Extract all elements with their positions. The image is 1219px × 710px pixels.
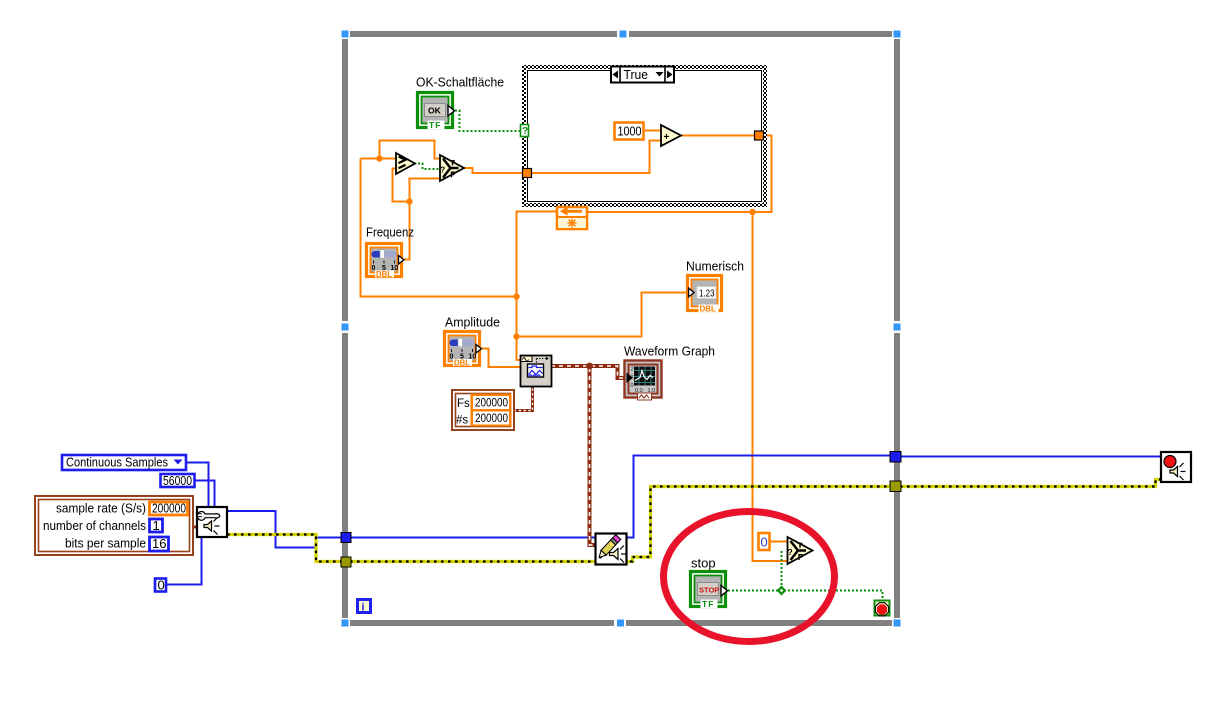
enum constant continuous samples: [62, 455, 186, 471]
svg-text:Waveform Graph: Waveform Graph: [624, 344, 715, 359]
constant 0 orange: [759, 533, 770, 550]
case selector label: [611, 67, 674, 83]
while loop selection handle top-middle: [617, 29, 629, 39]
wire configure task id to loop tunnel: [227, 511, 342, 548]
svg-text:OK: OK: [428, 106, 442, 116]
tunnel case left orange: [523, 169, 532, 178]
wire feedback output vertical: [517, 212, 557, 361]
svg-text:Continuous Samples: Continuous Samples: [66, 455, 168, 470]
svg-text:?: ?: [522, 126, 528, 137]
svg-text:0: 0: [372, 265, 376, 272]
wire 1000 to add upper input: [644, 130, 662, 132]
indicator Numerisch: [686, 259, 744, 314]
while loop selection handle bottom-left: [340, 618, 350, 628]
svg-text:1000: 1000: [618, 124, 642, 139]
svg-text:2: 2: [631, 367, 634, 373]
wire select1 output to case tunnel: [464, 168, 524, 173]
vi sine waveform: [521, 356, 552, 387]
tunnel loop-left blue task id: [341, 533, 351, 543]
wire frequenz output: [401, 179, 440, 260]
svg-text:Frequenz: Frequenz: [366, 225, 414, 240]
case structure border: [523, 66, 766, 206]
svg-text:sample rate (S/s): sample rate (S/s): [56, 501, 146, 516]
wire left vertical to greater-equal upper input: [361, 158, 397, 160]
svg-text:TF: TF: [702, 599, 714, 609]
wire error to sound stop: [900, 480, 1161, 487]
svg-text:0: 0: [761, 535, 768, 550]
wire add output to right tunnel: [680, 135, 755, 137]
while loop border: [345, 34, 897, 623]
tunnel loop-right blue task id: [890, 452, 901, 463]
wire boolean select2 s input: [781, 551, 783, 590]
function add: [661, 125, 681, 146]
svg-text:?: ?: [788, 547, 793, 557]
svg-text:Fs: Fs: [457, 398, 470, 410]
svg-text:200000: 200000: [475, 398, 508, 410]
svg-text:STOP: STOP: [699, 586, 719, 595]
svg-text:bits per sample: bits per sample: [65, 536, 146, 551]
wire 0 constant to select2 t input: [769, 541, 788, 543]
svg-text:OK-Schaltfläche: OK-Schaltfläche: [416, 75, 504, 90]
wire case tunnel to add lower input: [531, 141, 662, 174]
junction node waveform: [586, 363, 593, 370]
wire case output to feedback node: [587, 136, 772, 213]
svg-text:Numerisch: Numerisch: [686, 259, 744, 274]
tunnel loop-left yellow error: [341, 557, 351, 567]
svg-text:0: 0: [450, 354, 454, 361]
wire frequenz net down-left: [361, 159, 517, 297]
control stop: [691, 556, 728, 610]
wire error configure to loop tunnel: [227, 535, 342, 562]
wire task id to sound stop: [900, 456, 1161, 458]
loop condition terminal: [875, 601, 890, 616]
svg-text:DBL: DBL: [454, 359, 470, 368]
tunnel loop-right yellow error: [890, 481, 901, 492]
indicator waveform graph: [624, 344, 715, 401]
junction node frequenz-1: [376, 155, 382, 161]
svg-text:1: 1: [153, 518, 160, 533]
wire frequenz to greater-equal lower input: [393, 169, 410, 202]
svg-text:DBL: DBL: [376, 270, 392, 279]
while loop selection handle bottom-right: [892, 618, 902, 628]
wire 0 to configure vi bottom: [166, 537, 202, 585]
junction node numerisch branch: [513, 333, 519, 339]
control Frequenz: [366, 225, 414, 280]
wire 56000 to configure vi: [195, 481, 215, 508]
wire task id enum to configure vi: [186, 463, 209, 508]
wire to numerisch: [517, 293, 688, 337]
wire boolean stop to loop condition: [728, 591, 883, 602]
iteration terminal i: [358, 600, 371, 614]
tunnel case selector boolean: [521, 125, 529, 138]
while loop selection handle left-middle: [340, 321, 350, 333]
wire waveform down to sound write: [590, 366, 597, 545]
function greater-or-equal: [396, 153, 415, 174]
svg-text:200000: 200000: [152, 501, 186, 516]
svg-text:TF: TF: [429, 120, 441, 130]
svg-text:Amplitude: Amplitude: [445, 315, 500, 330]
cluster Fs #s constants: [452, 390, 514, 430]
svg-text:number of channels: number of channels: [43, 518, 146, 533]
vi sound output configure: [197, 507, 227, 537]
junction node case output branch: [749, 209, 755, 215]
WIRES-LAYER: [166, 111, 1161, 602]
junction node frequenz-2: [406, 198, 412, 204]
svg-text:stop: stop: [691, 556, 716, 571]
vi sound stop: [1161, 452, 1191, 482]
svg-text:?: ?: [440, 165, 445, 175]
wire boolean greater-equal to select s: [414, 164, 441, 170]
wire branch to select t input: [380, 141, 442, 159]
svg-text:1.23: 1.23: [699, 289, 715, 300]
svg-text:0: 0: [158, 578, 165, 593]
wire task id inside loop: [350, 456, 891, 538]
feedback node: [557, 207, 587, 229]
control OK-Schaltflaeche: [416, 75, 504, 131]
constant 1000: [615, 123, 644, 140]
svg-text:200000: 200000: [475, 413, 508, 425]
svg-text:16: 16: [152, 536, 166, 551]
control Amplitude: [445, 315, 501, 368]
wire boolean ok to case selector: [455, 111, 521, 132]
function select 1: [440, 155, 464, 181]
wire cluster sound format to configure vi: [192, 526, 198, 529]
junction node frequenz-3: [513, 293, 519, 299]
function select 2: [788, 537, 813, 564]
wire down to select2 f input: [753, 212, 789, 561]
tunnel case right orange: [755, 131, 764, 140]
wire cluster fs to sine vi: [514, 386, 533, 411]
annotation red circle: [664, 512, 835, 642]
cluster sound format: [35, 496, 193, 555]
svg-text:+: +: [664, 132, 670, 143]
svg-text:56000: 56000: [163, 473, 192, 488]
junction diamond boolean: [777, 586, 787, 596]
vi sound write: [596, 534, 627, 565]
while loop selection handle top-left: [340, 29, 350, 39]
wire amplitude to sine vi: [479, 349, 521, 368]
svg-text:#s: #s: [456, 415, 468, 427]
svg-text:0: 0: [631, 383, 634, 389]
while loop selection handle top-right: [892, 29, 902, 39]
svg-text:True: True: [624, 67, 649, 82]
wire waveform sine to graph: [551, 366, 626, 378]
svg-text:i: i: [362, 602, 365, 614]
while loop selection handle right-middle: [892, 321, 902, 333]
svg-text:DBL: DBL: [700, 305, 717, 314]
while loop selection handle bottom-middle: [614, 618, 626, 628]
constant 0 blue: [155, 578, 166, 593]
wire error inside loop: [350, 487, 891, 562]
constant 56000: [161, 473, 195, 488]
